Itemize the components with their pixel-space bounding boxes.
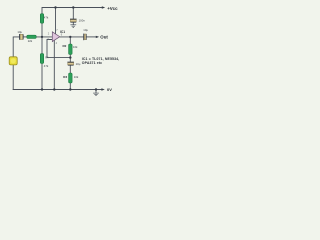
wire bottom rail [13, 89, 103, 91]
wire mic bottom to rail [12, 65, 14, 90]
wire C4 to R3 [69, 66, 71, 73]
wire op-amp output [60, 36, 83, 38]
arrow Out [96, 36, 99, 38]
svg-text:10µ: 10µ [83, 28, 88, 32]
resistor R1 [40, 14, 43, 24]
wire output node down to R2 [69, 37, 71, 44]
background [0, 0, 130, 102]
svg-text:Out: Out [100, 35, 108, 40]
resistor R2 [69, 44, 73, 55]
wire R2 to C4 [69, 55, 71, 62]
node output R2 [69, 36, 71, 38]
ground under C3 [70, 25, 76, 28]
wire mic top to C1 [13, 37, 19, 57]
wire top rail [42, 8, 104, 14]
capacitor C1 [20, 34, 24, 40]
wire C2 to out arrow [86, 36, 97, 38]
wire pin 7 supply [55, 8, 57, 34]
node feedback [69, 56, 71, 58]
svg-text:R2: R2 [63, 44, 67, 48]
microphone MIC1 [9, 57, 17, 65]
arrow +Vcc [102, 6, 105, 8]
op-amp IC1 [52, 32, 60, 42]
svg-text:+Vcc: +Vcc [107, 6, 118, 11]
resistor R5 horizontal [27, 35, 36, 38]
arrow 0V [101, 88, 104, 90]
wire C1 to R4h [23, 36, 27, 38]
capacitor C2 [84, 34, 87, 41]
node input junction [41, 36, 43, 38]
wire ground stub bottom right [95, 90, 97, 93]
wire R3 to bottom rail [69, 83, 71, 90]
svg-text:R3: R3 [63, 75, 67, 79]
svg-text:10k: 10k [74, 75, 79, 79]
svg-text:10µ: 10µ [76, 62, 81, 66]
wire input node down through R4 to bottom rail [41, 64, 43, 90]
wire R1 bottom to input node [41, 23, 43, 53]
capacitor C4 [67, 62, 74, 65]
svg-text:47k: 47k [44, 64, 49, 68]
node rail R3 [69, 88, 71, 90]
svg-text:R4: R4 [45, 56, 49, 60]
capacitor C3 [70, 19, 77, 22]
node rail ground [95, 88, 97, 90]
node rail pin7 [54, 6, 56, 8]
svg-text:OPA371 etc: OPA371 etc [82, 61, 102, 65]
svg-text:10µ: 10µ [17, 30, 22, 34]
wire pin 4 to bottom rail [53, 40, 55, 89]
node rail R4 [41, 88, 43, 90]
svg-text:47k: 47k [44, 16, 49, 20]
resistor R3 [69, 73, 73, 83]
node rail pin4 [53, 88, 55, 90]
wire C3 to ground [72, 22, 74, 24]
svg-text:0V: 0V [107, 87, 112, 92]
resistor R4 vertical [40, 54, 43, 64]
svg-text:10k: 10k [73, 45, 78, 49]
wire pin 3 to feedback node [47, 40, 70, 58]
svg-text:22k: 22k [28, 39, 33, 43]
wire Vcc dot to C3 [72, 8, 74, 19]
ground bottom right [93, 93, 99, 96]
svg-text:100n: 100n [79, 18, 86, 22]
wire R4h to op-amp pin 2 [36, 36, 52, 38]
node rail C3 [72, 6, 74, 8]
